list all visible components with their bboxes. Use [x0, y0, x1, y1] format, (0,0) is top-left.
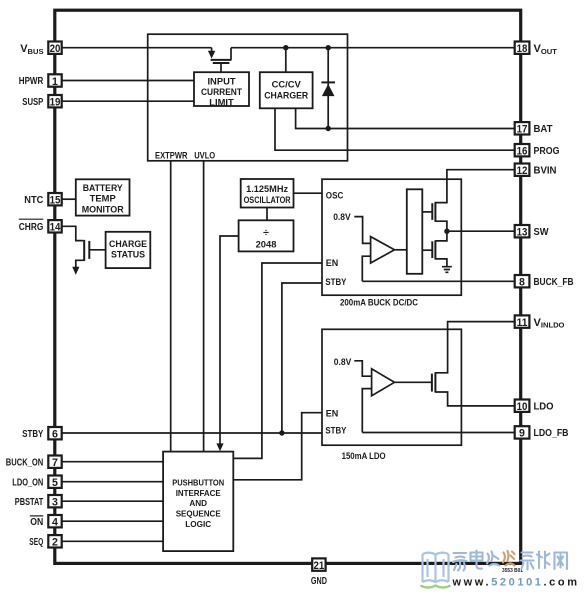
svg-text:19: 19 — [50, 97, 61, 109]
svg-text:ON: ON — [30, 517, 43, 528]
pin 7 BUCK_ON — [6, 456, 62, 470]
transistor Q2 gate bar — [88, 241, 90, 259]
LDO PMOS channel bar — [434, 372, 436, 392]
pin 20 VBUS — [20, 42, 61, 57]
svg-text:7: 7 — [52, 457, 58, 469]
wire buck PMOS source to SW node — [435, 221, 447, 231]
svg-text:STBY: STBY — [22, 429, 43, 440]
svg-text:STBY: STBY — [325, 425, 347, 436]
svg-text:0.8V: 0.8V — [334, 356, 352, 367]
svg-text:1: 1 — [52, 76, 58, 88]
op-amp buck error amp — [371, 237, 395, 263]
node charger top — [283, 45, 288, 50]
svg-text:18: 18 — [517, 43, 528, 55]
wire UVLO to pushbutton — [203, 161, 205, 452]
wire LDO EN from pushbutton — [233, 413, 322, 480]
svg-text:GND: GND — [311, 576, 327, 587]
svg-text:PBSTAT: PBSTAT — [15, 497, 44, 508]
input PMOS gate lead to current limit — [220, 64, 222, 72]
pin 13 SW — [515, 225, 549, 239]
wire NTC from pin 15 — [62, 198, 76, 200]
svg-text:9: 9 — [519, 428, 525, 440]
svg-text:MONITOR: MONITOR — [82, 203, 124, 214]
svg-text:EXTPWR: EXTPWR — [155, 150, 188, 161]
svg-text:EN: EN — [326, 257, 339, 268]
svg-text:BAT: BAT — [534, 124, 554, 135]
svg-text:12: 12 — [517, 165, 528, 177]
buck PMOS channel bar — [434, 202, 436, 222]
svg-text:BATTERY: BATTERY — [83, 182, 124, 193]
wire buck EN from pushbutton — [233, 263, 322, 458]
svg-text:STBY: STBY — [325, 276, 347, 287]
svg-text:CHRG: CHRG — [19, 222, 44, 233]
buck NMOS gate bar — [431, 241, 433, 258]
oscillator block U4 — [241, 179, 294, 208]
svg-text:PUSHBUTTON: PUSHBUTTON — [172, 479, 224, 488]
wire buck NMOS source to ground — [435, 259, 447, 266]
svg-text:EN: EN — [326, 407, 339, 418]
wire EXTPWR to pushbutton — [170, 161, 172, 452]
svg-text:0.8V: 0.8V — [333, 211, 351, 222]
svg-text:5: 5 — [52, 477, 58, 489]
pin 2 SEQ — [29, 535, 61, 549]
svg-text:21: 21 — [314, 560, 325, 572]
op-amp LDO error amp — [372, 369, 395, 396]
pin 11 VINLDO — [515, 315, 565, 329]
wire SEQ pin 2 to pushbutton — [62, 540, 164, 542]
pin 19 SUSP — [22, 95, 61, 109]
svg-text:20: 20 — [50, 43, 61, 55]
pin 16 PROG — [515, 144, 560, 158]
wire VOUT rail to pin 18 — [231, 47, 515, 49]
svg-text:17: 17 — [517, 124, 528, 136]
svg-text:14: 14 — [50, 222, 61, 234]
watermark chinese text — [453, 551, 499, 571]
wire charger top lead — [285, 48, 287, 72]
svg-text:BUCK_FB: BUCK_FB — [534, 277, 574, 288]
wire 0.8V to buck amp — [354, 217, 370, 244]
svg-text:INPUT: INPUT — [207, 75, 235, 86]
node diode top — [326, 45, 331, 50]
diode D1 cathode bar — [321, 81, 335, 83]
wire buck NMOS drain to SW node — [435, 231, 447, 241]
transistor Q2 channel bar — [83, 240, 85, 261]
svg-text:OSC: OSC — [326, 189, 344, 200]
svg-text:SUSP: SUSP — [22, 97, 43, 108]
wire PBSTAT pin 3 to pushbutton — [62, 500, 164, 502]
svg-text:UVLO: UVLO — [194, 150, 215, 161]
wire LDO_FB to pin 9 — [362, 432, 514, 434]
wire charger to BAT pin 17 — [296, 108, 515, 128]
wire ideal diode vertical — [327, 48, 329, 129]
svg-text:15: 15 — [50, 195, 61, 207]
svg-text:HPWR: HPWR — [19, 76, 44, 87]
svg-text:÷: ÷ — [263, 227, 269, 239]
svg-text:STATUS: STATUS — [111, 249, 145, 260]
pin 21 GND — [311, 558, 327, 587]
wire BUCK_ON pin 7 to pushbutton — [62, 461, 164, 463]
pin 6 STBY — [22, 427, 61, 441]
svg-text:LOGIC: LOGIC — [185, 520, 211, 529]
svg-text:LDO: LDO — [534, 402, 554, 413]
node STBY branch — [279, 430, 284, 435]
svg-text:PROG: PROG — [534, 146, 560, 157]
wire LDO PMOS source to VINLDO pin 11 — [435, 322, 514, 373]
svg-text:SEQ: SEQ — [29, 537, 43, 548]
wire OSC to buck — [294, 192, 323, 194]
wire oscillator to divider — [266, 208, 268, 221]
svg-text:CHARGER: CHARGER — [264, 89, 308, 100]
wire amp out to LDO PMOS gate — [395, 381, 432, 383]
svg-text:16: 16 — [517, 146, 528, 158]
wire LDO_ON pin 5 to pushbutton — [62, 481, 164, 483]
svg-text:BVIN: BVIN — [534, 166, 557, 177]
svg-text:SW: SW — [534, 227, 549, 238]
pin 14 CHRG — [19, 219, 62, 233]
wire divider clock to pushbutton with arrow — [220, 236, 239, 444]
pin 1 HPWR — [19, 74, 62, 88]
svg-text:LDO_FB: LDO_FB — [534, 428, 569, 439]
battery temp monitor block U6 — [76, 179, 130, 215]
wire ON pin 4 to pushbutton — [62, 520, 164, 522]
wire driver to PMOS gate — [422, 211, 432, 213]
LDO PMOS gate bar — [431, 374, 433, 392]
charge status block U7 — [106, 232, 151, 268]
svg-text:200mA BUCK DC/DC: 200mA BUCK DC/DC — [340, 297, 418, 308]
ground — [442, 267, 452, 273]
wire amp out to driver — [395, 249, 407, 251]
node SW — [444, 229, 449, 234]
svg-text:10: 10 — [517, 401, 528, 413]
svg-text:BUCK_ON: BUCK_ON — [6, 458, 44, 469]
svg-text:13: 13 — [517, 227, 528, 239]
wire SUSP from pin 19 — [62, 100, 195, 102]
wire buck PMOS drain to BVIN pin 12 — [435, 170, 514, 203]
LDO block outline — [322, 329, 461, 445]
svg-text:6: 6 — [52, 429, 58, 441]
pin 10 LDO — [515, 400, 554, 414]
pin 5 LDO_ON — [12, 476, 61, 490]
svg-text:11: 11 — [517, 317, 528, 329]
watermark book icon — [423, 553, 449, 582]
wire BUCK_FB to pin 8 — [362, 280, 514, 282]
input current limit block U2 — [194, 72, 249, 106]
wire CHRG from pin 14 to Q2 drain — [62, 226, 84, 240]
svg-text:3553 B01: 3553 B01 — [502, 568, 523, 574]
svg-text:LIMIT: LIMIT — [209, 96, 234, 107]
pin 4 ON — [30, 515, 62, 529]
buck driver block — [407, 189, 423, 273]
chip outline — [55, 10, 521, 563]
input PMOS gate bar — [213, 62, 230, 64]
wire SW to pin 13 — [447, 230, 515, 232]
buck converter block outline — [322, 179, 461, 295]
svg-text:2: 2 — [52, 537, 58, 549]
svg-text:8: 8 — [519, 277, 525, 289]
svg-text:2048: 2048 — [256, 239, 277, 250]
CC/CV charger block U3 — [260, 72, 313, 108]
wire LDO FB to amp inverting input — [362, 389, 371, 433]
svg-text:CHARGE: CHARGE — [109, 238, 147, 249]
svg-text:OSCILLATOR: OSCILLATOR — [244, 194, 291, 205]
wire driver to NMOS gate — [422, 249, 432, 251]
input PMOS channel bar — [211, 59, 232, 61]
svg-text:AND: AND — [189, 499, 207, 508]
svg-text:SEQUENCE: SEQUENCE — [176, 510, 222, 519]
wire charger to PROG pin 16 — [275, 108, 515, 150]
svg-text:CURRENT: CURRENT — [201, 86, 242, 97]
input PMOS drain lead — [230, 48, 232, 60]
pin 3 PBSTAT — [15, 495, 62, 509]
pin 17 BAT — [515, 122, 554, 136]
wire buck FB to amp inverting input — [362, 256, 370, 281]
buck NMOS channel bar — [434, 240, 436, 259]
svg-text:CC/CV: CC/CV — [272, 79, 302, 90]
wire STBY from pin 6 to LDO — [62, 432, 323, 434]
svg-text:NTC: NTC — [24, 195, 44, 206]
wire 0.8V to LDO amp — [354, 361, 371, 376]
pin 9 LDO_FB — [515, 426, 569, 440]
svg-text:INTERFACE: INTERFACE — [176, 489, 222, 498]
input PMOS Q_in source lead with arrow — [211, 48, 213, 52]
wire STBY branch to buck — [282, 283, 322, 433]
buck PMOS gate bar — [431, 203, 433, 220]
wire Q2 source with arrow — [76, 260, 84, 267]
svg-text:150mA LDO: 150mA LDO — [342, 450, 386, 461]
pin 12 BVIN — [515, 164, 557, 178]
svg-text:LDO_ON: LDO_ON — [12, 478, 43, 489]
svg-text:www.520101.com: www.520101.com — [452, 577, 580, 589]
diode D1 body — [322, 84, 335, 96]
wire Q2 gate to charge status — [89, 249, 105, 251]
divider block U5 — [239, 220, 294, 251]
pin 15 NTC — [24, 193, 61, 207]
pin 8 BUCK_FB — [515, 275, 574, 289]
svg-text:TEMP: TEMP — [90, 193, 116, 204]
svg-text:1.125MHz: 1.125MHz — [246, 183, 288, 194]
node diode bottom / BAT — [326, 126, 331, 131]
power block outline — [148, 34, 348, 161]
wire HPWR from pin 1 — [62, 80, 195, 82]
svg-text:3: 3 — [52, 497, 58, 509]
pushbutton logic block U8 — [163, 452, 233, 551]
pin 18 VOUT — [515, 42, 558, 57]
wire LDO PMOS drain to LDO pin 10 — [435, 392, 514, 406]
svg-text:4: 4 — [52, 517, 58, 529]
wire VBUS from pin 20 — [62, 47, 212, 49]
